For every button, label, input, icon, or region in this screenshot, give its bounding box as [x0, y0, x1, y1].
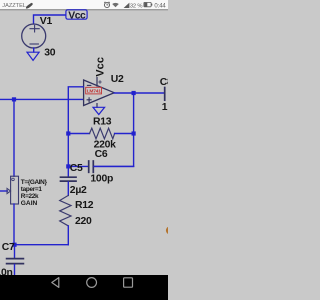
junction R13 right [132, 131, 136, 135]
wire input net to +in [0, 98, 83, 100]
op-amp V+ pin [96, 78, 98, 86]
svg-text:R12: R12 [75, 200, 94, 211]
V1 bottom pin [33, 48, 35, 52]
svg-text:Vcc: Vcc [68, 10, 86, 21]
junction C7 node [12, 243, 16, 247]
ground under op-amp [93, 107, 105, 114]
svg-text:R13: R13 [93, 117, 112, 128]
op-amp minus mark [87, 84, 90, 86]
svg-text:C8: C8 [160, 77, 168, 88]
net label Vcc (flag) [66, 10, 87, 19]
op-amp plus mark [87, 98, 91, 102]
voltage source V1 [22, 24, 46, 48]
junction R13 left [66, 131, 70, 135]
capacitor C7 [14, 245, 16, 258]
resistor R13 [68, 133, 89, 135]
svg-text:2µ2: 2µ2 [70, 185, 87, 196]
op-amp U2 [84, 80, 115, 106]
status bar signal bars icon [124, 3, 130, 8]
potentiometer top terminal circle [12, 178, 15, 181]
svg-text:V1: V1 [40, 16, 53, 27]
svg-text:C5: C5 [70, 163, 83, 174]
status bar vibrate icon [26, 3, 32, 8]
nav back icon [52, 278, 59, 288]
svg-text:U2: U2 [111, 74, 124, 85]
junction output [132, 91, 136, 95]
svg-text:220: 220 [75, 216, 92, 227]
junction input/pot [12, 97, 16, 101]
svg-text:Vcc: Vcc [94, 57, 106, 77]
junction C5 top [66, 164, 70, 168]
V1 minus mark [30, 43, 38, 45]
orange FAB edge [166, 226, 174, 234]
svg-text:0:44: 0:44 [154, 3, 166, 9]
status bar alarm icon [104, 2, 110, 8]
navigation bar [0, 275, 168, 300]
svg-text:30: 30 [44, 48, 56, 59]
potentiometer R (GAIN) body [11, 176, 19, 204]
nav home icon [87, 278, 97, 288]
wire V1 top to Vcc label [34, 15, 66, 24]
nav recents icon [124, 278, 133, 287]
op-amp V- pin [96, 104, 98, 108]
svg-text:1µ: 1µ [162, 102, 168, 113]
status bar background [0, 0, 168, 9]
wire pot bottom [13, 204, 15, 245]
wiper wire [0, 190, 7, 192]
svg-text:R=22k: R=22k [21, 193, 39, 200]
status bar battery icon [144, 2, 152, 6]
wire op-amp output [114, 92, 164, 94]
wire feedback right node [94, 93, 134, 166]
svg-text:LM741: LM741 [87, 89, 102, 95]
svg-text:C6: C6 [95, 149, 108, 160]
svg-text:32 %: 32 % [130, 4, 142, 10]
schematic background [0, 0, 168, 300]
svg-text:taper=1: taper=1 [21, 186, 43, 193]
resistor R12 [60, 195, 71, 226]
wire inverting input [68, 87, 83, 167]
svg-text:C7: C7 [2, 242, 15, 253]
ground under V1 [27, 52, 39, 60]
op-amp model box LM741 [86, 87, 102, 94]
wire bottom node to R12 [15, 244, 69, 246]
output capacitor C8 (clipped) [164, 88, 166, 101]
capacitor C6 [68, 165, 88, 167]
svg-text:GAIN: GAIN [21, 200, 38, 207]
svg-text:JAZZTEL: JAZZTEL [2, 3, 26, 9]
wire pot top [13, 99, 15, 176]
wiper arrowhead [7, 188, 11, 193]
V1 plus mark [30, 25, 39, 32]
V+ pin plus mark [99, 81, 102, 84]
svg-text:T={GAIN}: T={GAIN} [21, 179, 48, 186]
capacitor C5 [67, 166, 69, 176]
svg-text:100p: 100p [90, 173, 113, 184]
status bar wifi icon [112, 3, 119, 7]
